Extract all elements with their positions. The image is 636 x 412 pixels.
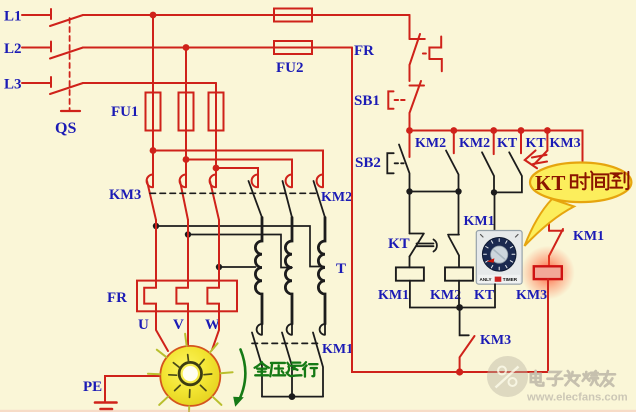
wire tap A to coil T3 (156, 226, 324, 267)
bottom edge tint (0, 410, 636, 412)
fuse FU2-1 (274, 9, 312, 22)
switch QS pole 1 (50, 9, 83, 26)
rotation arrow (green) (240, 350, 245, 399)
switch QS pole 2 (50, 42, 83, 59)
svg-text:PE: PE (83, 379, 102, 395)
wire star point (262, 396, 323, 398)
wire phase B vertical (185, 48, 187, 160)
svg-text:FR: FR (354, 43, 374, 59)
thermal relay FR heater 2 (176, 220, 188, 311)
callout glyph 间 (591, 172, 608, 190)
mechanical link dashed KM3-KM2 (150, 192, 316, 194)
node feed A (150, 147, 157, 154)
motor M body (160, 346, 220, 406)
svg-text:FR: FR (107, 290, 127, 306)
wire timer to bottom row (494, 284, 496, 307)
contactor KM1 pole 3 (313, 324, 325, 397)
label running text 运 (286, 363, 301, 376)
label running text 全 (255, 362, 269, 375)
wire feed B to KM2 pole 2 (186, 160, 292, 172)
contactor KM3 pole 2 (180, 160, 188, 235)
wire SB2/KM2 junction (410, 191, 459, 193)
coil KM3 (534, 266, 562, 279)
node J1 (L1 tap) (150, 12, 157, 19)
wire V to motor (187, 311, 189, 348)
watermark logo circle (487, 356, 528, 397)
node bus 3 (490, 127, 497, 134)
callout glyph 时 (571, 173, 590, 189)
svg-text:KM3: KM3 (550, 136, 581, 151)
callout bubble tail (525, 199, 575, 246)
fuse FU1-3 (209, 93, 224, 131)
wire tap C to coil T1 (219, 266, 256, 268)
wire L1 to FU2 and corner to control (83, 14, 410, 16)
arrow indicator (red double arrow) (525, 151, 547, 169)
node bus 1 (406, 127, 413, 134)
wire W to motor (212, 311, 219, 350)
svg-text:www.elecfans.com: www.elecfans.com (526, 392, 628, 404)
contact KM2 aux self-hold (446, 151, 459, 192)
svg-text:U: U (138, 317, 149, 333)
thermal relay FR NC contact (410, 34, 442, 71)
node J2 (L2 tap) (183, 44, 190, 51)
coil KM3 glow (521, 246, 575, 300)
node star (289, 393, 296, 400)
contact KM3 aux NO (to bottom bus) (460, 308, 469, 336)
wire phase C vertical (215, 83, 217, 168)
node bottom row (456, 304, 463, 311)
contactor KM1 pole 2 (282, 324, 292, 397)
motor shaft ring (179, 362, 201, 384)
node bus 4 (518, 127, 525, 134)
wire KM1 coil to bottom row (410, 281, 495, 308)
node feed B (183, 156, 190, 163)
svg-text:FU2: FU2 (276, 60, 304, 76)
svg-text:KT: KT (474, 288, 495, 303)
branch stub KT-a (520, 131, 522, 154)
branch KM3 contact under bubble (535, 151, 548, 165)
svg-text:KT: KT (526, 136, 547, 151)
coil KM2 (445, 267, 473, 280)
svg-text:SB1: SB1 (354, 93, 380, 109)
contact KM1 NC interlock (549, 229, 563, 256)
branch stub KM2-a (453, 131, 455, 154)
svg-text:L3: L3 (4, 77, 22, 93)
coil KM1 (396, 267, 424, 280)
pushbutton SB1 (stop, NC) (388, 81, 424, 113)
svg-text:KM3: KM3 (516, 288, 547, 303)
transformer T coil 1 (255, 218, 262, 325)
svg-text:KM1: KM1 (322, 342, 353, 357)
wire down to KT contact (409, 192, 411, 234)
branch stub KM2-b (493, 131, 495, 155)
wire to KT coil (timer) (494, 192, 496, 230)
svg-text:FU1: FU1 (111, 104, 139, 120)
switch QS pole 3 (50, 77, 83, 94)
svg-text:KT: KT (497, 136, 518, 151)
wire L3 horizontal (83, 82, 216, 84)
branch stub KM3 (546, 131, 548, 151)
wire KM3 branch to KM1 NC (548, 203, 550, 231)
motor spark rays (148, 334, 233, 412)
mechanical link dashed KM1 (252, 342, 318, 344)
transformer T coil 2 (285, 218, 292, 325)
svg-text:L1: L1 (4, 9, 22, 25)
switch QS link end bar (61, 110, 80, 112)
node feed C (213, 165, 220, 172)
svg-text:KT: KT (535, 171, 565, 195)
callout glyph 到 (611, 172, 629, 189)
contactor KM2 pole 2 (283, 171, 293, 218)
watermark glyph 烧 (583, 371, 598, 385)
watermark glyph 友 (599, 371, 615, 386)
node junction a (406, 188, 412, 194)
svg-text:KM3: KM3 (480, 333, 511, 348)
wire PE to motor (105, 376, 161, 401)
svg-text:KM2: KM2 (430, 288, 461, 303)
contactor KM3 pole 3 (210, 168, 219, 267)
watermark glyph 发 (565, 371, 580, 386)
contact KT aux instantaneous (494, 152, 522, 192)
contactor KM2 pole 3 (314, 171, 326, 218)
svg-text:KM3: KM3 (109, 187, 141, 203)
svg-text:KT: KT (388, 236, 410, 252)
wire SB1 to bus (409, 113, 411, 131)
svg-text:V: V (173, 317, 184, 333)
wire U to motor (156, 311, 168, 351)
wire control feed down from L1 (409, 15, 411, 39)
motor shaft (183, 366, 198, 381)
svg-text:T: T (336, 261, 346, 277)
wire tap B to coil T2 (188, 235, 292, 268)
wire KT contact to KM1 coil (409, 257, 411, 268)
control bus top (410, 131, 583, 162)
svg-text:KM1: KM1 (573, 229, 604, 244)
svg-text:QS: QS (55, 120, 76, 137)
svg-text:L2: L2 (4, 41, 22, 57)
thermal relay FR heater 3 (207, 220, 219, 311)
contact KM2 aux b (482, 152, 494, 192)
contactor KM3 pole 1 (147, 151, 156, 227)
watermark glyph 电 (531, 371, 544, 386)
contactor KM1 pole 1 (252, 324, 262, 397)
contactor KM2 pole 1 (249, 171, 263, 218)
thermal relay FR heater 1 (144, 220, 156, 311)
wire L2 to FU2 and to control rail corner (83, 47, 352, 49)
wire branch 2 down (458, 192, 460, 235)
node tap C (216, 264, 222, 270)
fuse FU2-2 (274, 41, 312, 54)
wire L3 lead-in (22, 82, 51, 84)
node bottom bus (456, 368, 463, 375)
node bus 5 (544, 127, 551, 134)
label running text 压 (270, 363, 285, 376)
svg-text:KM1: KM1 (378, 288, 409, 303)
node tap B (185, 231, 191, 237)
wire feed C to KM2 pole 1 (216, 168, 258, 171)
watermark glyph 子 (547, 372, 562, 385)
contact KM1 aux NO (448, 235, 459, 268)
wire KM2 coil to bottom row (458, 281, 460, 308)
fuse FU1-1 (146, 93, 161, 131)
wire FR to SB1 (409, 65, 411, 81)
svg-text:KM2: KM2 (321, 190, 352, 205)
pushbutton SB2 (start, NO) (387, 145, 409, 192)
node junction b (455, 188, 461, 194)
svg-text:KM2: KM2 (459, 136, 490, 151)
svg-text:SB2: SB2 (355, 155, 381, 171)
thermal relay FR heater block (137, 281, 237, 312)
fuse FU1-2 (179, 93, 194, 131)
svg-text:ANLY: ANLY (480, 277, 492, 282)
node junction c (491, 189, 497, 195)
node bus 2 (450, 127, 457, 134)
wire feed A to KM2 pole 3 (153, 151, 323, 172)
wire KM3 coil to bottom bus (547, 279, 549, 372)
wire phase A vertical (152, 15, 154, 151)
ground PE symbol (95, 401, 117, 404)
svg-text:KM2: KM2 (415, 136, 446, 151)
branch stub SB2 (409, 131, 411, 158)
svg-text:TIMER: TIMER (503, 277, 518, 282)
contact KT on-delay NO (410, 234, 437, 257)
transformer T coil 3 (318, 218, 325, 325)
label running text 行 (303, 362, 318, 376)
wire L2 lead-in (22, 47, 51, 49)
svg-text:KM1: KM1 (464, 214, 495, 229)
bottom bus rail (352, 48, 549, 373)
switch QS mechanical link (dashed) (69, 18, 71, 110)
timer KT device (476, 231, 522, 285)
callout bubble ellipse (530, 163, 631, 203)
wire KM1 NC to KM3 coil (548, 256, 550, 266)
node tap A (153, 223, 159, 229)
wire L1 lead-in (22, 14, 51, 16)
